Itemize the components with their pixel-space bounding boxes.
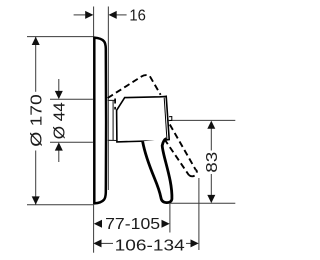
wall extension line bottom bbox=[93, 205, 95, 253]
dimension 16 right leader bbox=[117, 14, 127, 16]
arrowhead 77-105 right bbox=[162, 220, 170, 228]
dimension Ø44 lower stub bbox=[58, 151, 60, 163]
arrowhead 83 up bbox=[207, 121, 215, 129]
arrowhead 16 left bbox=[85, 11, 93, 19]
body right edge inner line bbox=[164, 98, 167, 139]
arrowhead O170 down bbox=[32, 196, 40, 204]
extension line dashed lever tip (x=198.9) bbox=[198, 178, 200, 250]
front extension line top (16mm face, x=108.35) bbox=[107, 7, 109, 191]
svg-text:77-105: 77-105 bbox=[105, 216, 160, 233]
dashed handle body (raised position) bbox=[108, 75, 161, 98]
arrowhead 16 right bbox=[109, 11, 117, 19]
dashed lever upper line (pulled position) bbox=[170, 125, 196, 170]
arrowhead O170 up bbox=[32, 37, 40, 45]
dimension Ø170 top extension line bbox=[27, 36, 93, 38]
handle body (cartridge housing, solid position) bbox=[117, 96, 172, 142]
dimension 106-134 right leader bbox=[186, 242, 191, 244]
dimension Ø44 top extension line bbox=[50, 98, 93, 100]
svg-text:Ø 170: Ø 170 bbox=[29, 94, 46, 147]
dashed rotated body left edge bbox=[114, 99, 116, 110]
dimension Ø170 line upper segment bbox=[35, 37, 37, 92]
body outline bbox=[117, 96, 170, 142]
svg-text:83: 83 bbox=[204, 152, 221, 173]
svg-text:16: 16 bbox=[129, 8, 146, 25]
lever handle (solid position) bbox=[143, 139, 172, 203]
dimension 83 bottom extension line bbox=[170, 202, 236, 204]
svg-text:106-134: 106-134 bbox=[115, 238, 185, 255]
dashed lever lower line (pulled position) bbox=[164, 139, 189, 175]
extension line lever tip (x=169.9) bbox=[169, 204, 171, 233]
sleeve front vertical line bbox=[112, 101, 114, 140]
dimension Ø170 line lower segment bbox=[35, 151, 37, 205]
dimension Ø170 bottom extension line bbox=[27, 204, 93, 206]
dimension 83 line lower segment bbox=[210, 174, 212, 195]
dashed lever tip cap bbox=[189, 170, 197, 176]
arrowhead O44 up-to-bottom-line bbox=[55, 142, 63, 150]
sleeve bottom line bbox=[108, 139, 117, 141]
dimension 83 line upper segment bbox=[210, 129, 212, 151]
dimension Ø44 upper stub bbox=[58, 79, 60, 91]
arrowhead 77-105 left bbox=[94, 220, 102, 228]
set screw bump on right edge bbox=[169, 117, 172, 121]
dimension 83 top extension line bbox=[165, 119, 236, 121]
arrowhead 106-134 right bbox=[191, 239, 199, 247]
escutcheon plate (side view, wall plate Ø170 x 16) bbox=[94, 38, 106, 204]
arrowhead 83 down bbox=[207, 195, 215, 203]
arrowhead 106-134 left bbox=[93, 239, 101, 247]
wall extension line top (back of plate, x=93.6) bbox=[93, 7, 95, 37]
arrowhead O44 down-to-top-line bbox=[55, 91, 63, 99]
sleeve top line bbox=[108, 99, 116, 101]
dimension 16 left leader bbox=[74, 14, 86, 16]
dimension 106-134 left leader bbox=[102, 242, 114, 244]
svg-text:Ø 44: Ø 44 bbox=[52, 102, 69, 139]
dimension Ø44 bottom extension line bbox=[50, 141, 93, 143]
